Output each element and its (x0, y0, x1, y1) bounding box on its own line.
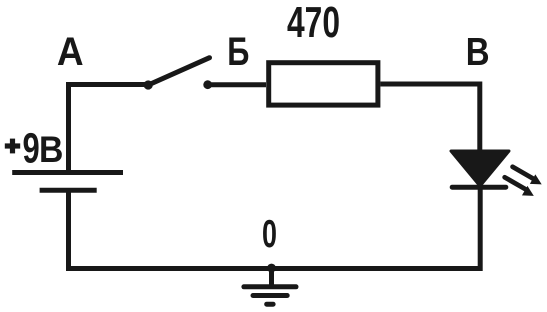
svg-text:9: 9 (22, 123, 39, 171)
svg-text:А: А (57, 30, 84, 74)
svg-text:Б: Б (227, 29, 249, 74)
svg-text:470: 470 (287, 0, 340, 47)
svg-text:0: 0 (262, 213, 277, 256)
svg-text:В: В (39, 128, 63, 170)
svg-text:В: В (466, 29, 490, 73)
